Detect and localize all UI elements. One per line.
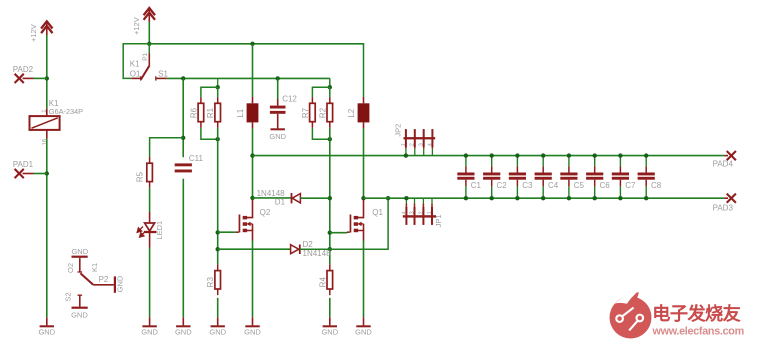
wire R3 to GND	[217, 298, 219, 317]
wire top rail corner down through L2	[362, 44, 364, 97]
resistor R7	[310, 97, 316, 128]
wire Q1 gate	[330, 232, 347, 234]
svg-text:R2: R2	[318, 107, 327, 118]
node R6/R1 top	[216, 85, 220, 89]
node D1 anode tap	[328, 196, 332, 200]
node Q2 drain / D1 cathode	[250, 196, 254, 200]
svg-text:www.elecfans.com: www.elecfans.com	[652, 326, 744, 338]
svg-text:R4: R4	[318, 277, 327, 288]
svg-text:R7: R7	[301, 107, 310, 118]
wire Q2 gate	[218, 231, 236, 233]
svg-text:R3: R3	[206, 277, 215, 288]
capacitor C11	[175, 163, 192, 172]
node Q2 gate tap	[216, 230, 220, 234]
resistor R1	[215, 87, 221, 128]
jumper JP2	[404, 129, 436, 156]
wire PAD1 to node	[34, 173, 47, 175]
svg-text:3: 3	[409, 211, 415, 214]
ground (LED1)	[141, 317, 158, 336]
resistor R6	[198, 97, 204, 128]
capacitor C12	[270, 99, 286, 114]
svg-text:C3: C3	[522, 181, 533, 190]
wire R5 to LED1	[149, 188, 151, 212]
svg-text:PAD2: PAD2	[13, 65, 34, 74]
svg-text:C6: C6	[600, 181, 611, 190]
node D2 wire to drain wire	[386, 196, 390, 200]
capacitor C2	[483, 156, 500, 199]
svg-text:R6: R6	[189, 107, 198, 118]
svg-text:LED1: LED1	[155, 221, 164, 240]
wire Q1 source to GND	[363, 241, 365, 318]
svg-text:3: 3	[419, 143, 425, 146]
node C2 top	[490, 153, 494, 157]
svg-text:R1: R1	[206, 107, 215, 118]
wire K1 coil pin 16 to GND	[46, 139, 48, 318]
capacitor C3	[509, 156, 526, 199]
node R7/R2 bottom	[328, 137, 332, 141]
ground (R4)	[321, 317, 338, 336]
node R5/C11 rail junction	[181, 76, 185, 80]
node C2 bottom	[490, 196, 494, 200]
ground (C11)	[175, 317, 192, 336]
node D2 anode tap	[216, 247, 220, 251]
node C1 top	[464, 153, 468, 157]
supply +12V (left)	[41, 21, 52, 35]
ground (Q2 source)	[244, 317, 261, 336]
svg-text:PAD1: PAD1	[13, 160, 34, 169]
label K1 G6A-234P	[49, 99, 83, 116]
relay contact K1 P1/O1/S1	[131, 44, 167, 81]
svg-text:GND: GND	[141, 327, 158, 336]
node Q1 gate tap	[328, 231, 332, 235]
resistor R3	[215, 264, 221, 295]
node C3 top	[515, 153, 519, 157]
wire L2 bottom to Q1 drain	[363, 128, 365, 199]
pad PAD1	[15, 169, 34, 178]
wire to R5 top	[150, 138, 184, 157]
svg-text:+12V: +12V	[132, 17, 141, 35]
watermark logo elecfans	[610, 292, 652, 339]
svg-text:C12: C12	[282, 94, 297, 103]
node OUT1 (wire to JP2/caps)	[250, 153, 254, 157]
pad PAD2	[15, 74, 34, 83]
node PAD2 junction	[45, 76, 49, 80]
svg-text:2: 2	[410, 143, 416, 146]
svg-text:Q1: Q1	[372, 208, 383, 217]
jumper JP1	[403, 198, 436, 225]
svg-text:4: 4	[401, 211, 407, 214]
transistor Q1 (n-MOSFET)	[347, 200, 364, 241]
svg-text:L1: L1	[236, 108, 245, 117]
svg-text:GND: GND	[116, 275, 125, 292]
svg-text:GND: GND	[321, 327, 338, 336]
svg-text:GND: GND	[71, 310, 88, 319]
svg-text:C7: C7	[625, 181, 636, 190]
svg-text:GND: GND	[175, 327, 192, 336]
svg-text:D2: D2	[303, 240, 314, 249]
svg-text:S2: S2	[64, 292, 73, 301]
wire +12V to K1 coil pin 1	[46, 35, 48, 108]
wire L1 bottom to Q2 drain	[252, 128, 254, 199]
node R5 branch junction	[181, 136, 185, 140]
resistor R2	[327, 87, 333, 128]
node Q1 drain junction	[361, 196, 365, 200]
svg-text:GND: GND	[269, 132, 286, 141]
inductor L2	[358, 97, 370, 128]
capacitor C4	[535, 156, 552, 199]
capacitor C6	[586, 156, 603, 199]
wire R6 top connector	[201, 87, 218, 97]
node PAD1 junction	[45, 171, 49, 175]
svg-text:GND: GND	[71, 247, 88, 256]
svg-text:GND: GND	[38, 327, 55, 336]
wire R7 top connector	[312, 87, 329, 97]
ground (P2 pole, sideways)	[114, 275, 125, 293]
relay coil K1	[30, 108, 60, 138]
node C1 bottom	[464, 196, 468, 200]
svg-text:C2: C2	[497, 181, 508, 190]
diode D2 1N4148	[291, 245, 300, 255]
wire R7/R2 node down to R4 (gate node Q1)	[329, 128, 331, 264]
svg-text:PAD4: PAD4	[713, 160, 734, 169]
wire D2 cathode to Q1 drain net	[300, 198, 388, 249]
svg-text:C5: C5	[574, 181, 585, 190]
resistor R4	[327, 264, 333, 295]
node C7 top	[618, 153, 622, 157]
svg-text:K1: K1	[90, 263, 99, 272]
wire S1 rail	[167, 77, 330, 79]
svg-text:JP1: JP1	[434, 214, 443, 227]
svg-text:C4: C4	[548, 181, 559, 190]
wire R4 to GND	[329, 298, 331, 317]
node C5 top	[567, 153, 571, 157]
wire R6 bottom connector	[201, 128, 218, 139]
wire top rail to O1 contact	[123, 44, 149, 79]
resistor R5	[147, 157, 153, 188]
wire R6/R1 node down to R3 (gate node Q2)	[217, 128, 219, 264]
capacitor C8	[638, 156, 655, 199]
svg-text:电子发烧友: 电子发烧友	[652, 303, 741, 324]
wire +12V to node P1	[148, 22, 150, 44]
wire D1 anode to Q1 gate node	[300, 197, 329, 199]
svg-text:PAD3: PAD3	[713, 204, 734, 213]
svg-text:R5: R5	[135, 171, 144, 182]
wire LED1 to GND	[149, 248, 151, 318]
node C4 top	[541, 153, 545, 157]
svg-text:2: 2	[418, 211, 424, 214]
svg-text:L2: L2	[347, 108, 356, 117]
wire top rail down through L1	[252, 44, 254, 97]
svg-text:+12V: +12V	[29, 24, 38, 42]
wire Q1 drain to JP1, C1-C8 bottom rail, PAD3	[364, 197, 725, 199]
node D2 cathode tap	[328, 247, 332, 251]
diode D1 1N4148	[292, 193, 301, 203]
svg-text:C11: C11	[189, 154, 204, 163]
wire R7 bottom connector	[312, 128, 329, 139]
ground (R3)	[209, 317, 226, 336]
node P1 junction on +12V rail	[147, 42, 151, 46]
wire +12V top rail to L1/L2	[149, 43, 363, 45]
svg-text:GND: GND	[209, 327, 226, 336]
wire rail down to C12	[277, 78, 279, 99]
svg-text:P2: P2	[99, 275, 109, 284]
svg-text:1N4148: 1N4148	[303, 249, 332, 258]
supply +12V (top middle)	[144, 8, 155, 22]
transistor Q2 (n-MOSFET)	[236, 200, 253, 241]
ground (C12)	[269, 128, 286, 141]
node R7/R2 top	[328, 85, 332, 89]
wire C12 to GND symbol	[277, 114, 279, 129]
capacitor C1	[457, 156, 474, 199]
svg-text:D1: D1	[275, 198, 286, 207]
node R6/R1 bottom	[216, 137, 220, 141]
svg-text:GND: GND	[244, 327, 261, 336]
svg-text:G6A-234P: G6A-234P	[49, 107, 83, 116]
inductor L1	[247, 97, 259, 128]
relay contact K1 O2/P2/S2	[78, 259, 114, 307]
wire C11 to GND	[182, 179, 184, 317]
node C6 top	[593, 153, 597, 157]
node JP2 pin1 junction	[404, 153, 408, 157]
wire OUT1 (L1/Q2 drain) to JP2, C1-C8 top rail, PAD4	[253, 155, 725, 157]
svg-text:P1: P1	[142, 52, 149, 60]
ground (relay coil)	[38, 317, 55, 336]
node L1 top junction	[250, 42, 254, 46]
svg-text:1: 1	[427, 211, 433, 214]
pad PAD3	[724, 194, 736, 203]
wire Q2 drain to D1 cathode	[253, 197, 291, 199]
capacitor C7	[612, 156, 629, 199]
node C12 rail junction	[276, 76, 280, 80]
svg-text:O1: O1	[130, 69, 141, 78]
ground (O2 contact, inverted)	[71, 247, 88, 259]
ground (S2 contact)	[71, 307, 88, 320]
node C5 bottom	[567, 196, 571, 200]
svg-text:K1: K1	[130, 59, 140, 68]
pad PAD4	[724, 151, 736, 160]
wire rail to R6/R1 top node	[217, 78, 219, 87]
ground (Q1 source)	[355, 317, 372, 336]
wire Q2 gate node to D2 anode	[218, 248, 291, 250]
capacitor C5	[560, 156, 577, 199]
wire rail corner down to R7/R2 top node	[329, 78, 331, 87]
svg-text:C1: C1	[471, 181, 482, 190]
svg-text:1: 1	[401, 143, 407, 146]
node C8 top	[644, 153, 648, 157]
node C8 bottom	[644, 196, 648, 200]
svg-text:S1: S1	[158, 69, 168, 78]
svg-text:Q2: Q2	[260, 208, 271, 217]
svg-text:C8: C8	[651, 181, 662, 190]
node JP1 pin4 junction	[404, 196, 408, 200]
svg-text:O2: O2	[66, 263, 75, 273]
wire Q2 source to GND	[252, 241, 254, 318]
wire PAD2 to node	[34, 77, 47, 79]
watermark text elecfans	[652, 303, 744, 338]
svg-text:4: 4	[427, 143, 433, 146]
svg-text:GND: GND	[355, 327, 372, 336]
LED LED1	[137, 212, 156, 248]
node C6 bottom	[593, 196, 597, 200]
node C7 bottom	[618, 196, 622, 200]
node C3 bottom	[515, 196, 519, 200]
svg-text:JP2: JP2	[394, 124, 403, 137]
node C4 bottom	[541, 196, 545, 200]
wire rail down to R5/C11 node	[182, 78, 184, 157]
